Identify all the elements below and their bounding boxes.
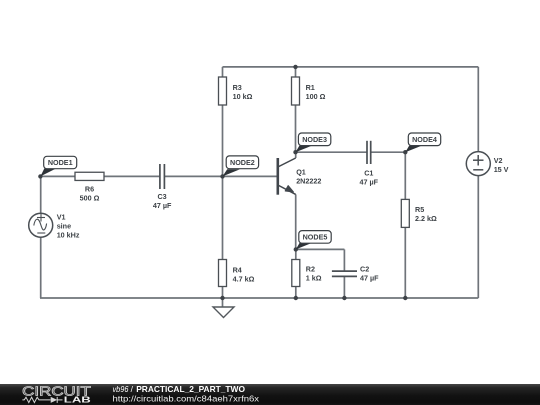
svg-text:47 µF: 47 µF xyxy=(153,201,172,210)
svg-text:R5: R5 xyxy=(415,205,424,214)
svg-text:100 Ω: 100 Ω xyxy=(306,92,326,101)
svg-text:LAB: LAB xyxy=(64,395,91,405)
svg-text:10 kΩ: 10 kΩ xyxy=(233,92,253,101)
svg-text:Q1: Q1 xyxy=(296,168,306,177)
svg-text:sine: sine xyxy=(57,222,71,231)
svg-text:C1: C1 xyxy=(364,168,373,177)
svg-text:4.7 kΩ: 4.7 kΩ xyxy=(233,275,255,284)
svg-text:C2: C2 xyxy=(360,264,369,273)
svg-text:V2: V2 xyxy=(494,156,503,165)
svg-text:2.2 kΩ: 2.2 kΩ xyxy=(415,214,437,223)
svg-text:vb96: vb96 xyxy=(113,384,129,394)
svg-text:15 V: 15 V xyxy=(494,165,509,174)
svg-text:R1: R1 xyxy=(306,83,315,92)
svg-text:R4: R4 xyxy=(233,266,242,275)
svg-text:V1: V1 xyxy=(57,212,66,221)
svg-text:NODE1: NODE1 xyxy=(48,158,73,167)
svg-text:NODE3: NODE3 xyxy=(302,135,327,144)
svg-text:47 µF: 47 µF xyxy=(360,177,379,186)
svg-text:R3: R3 xyxy=(233,83,242,92)
svg-text:PRACTICAL_2_PART_TWO: PRACTICAL_2_PART_TWO xyxy=(136,384,245,394)
svg-text:http://circuitlab.com/c84aeh7x: http://circuitlab.com/c84aeh7xrfn6x xyxy=(113,394,260,403)
svg-text:NODE5: NODE5 xyxy=(303,232,328,241)
svg-text:10 kHz: 10 kHz xyxy=(57,230,80,239)
svg-text:C3: C3 xyxy=(157,192,166,201)
svg-text:NODE2: NODE2 xyxy=(230,158,255,167)
svg-text:R6: R6 xyxy=(85,185,94,194)
svg-text:R2: R2 xyxy=(306,264,315,273)
svg-text:47 µF: 47 µF xyxy=(360,273,379,282)
svg-text:2N2222: 2N2222 xyxy=(296,177,321,186)
svg-text:NODE4: NODE4 xyxy=(412,135,437,144)
svg-text:500 Ω: 500 Ω xyxy=(80,194,100,203)
svg-text:1 kΩ: 1 kΩ xyxy=(306,273,322,282)
